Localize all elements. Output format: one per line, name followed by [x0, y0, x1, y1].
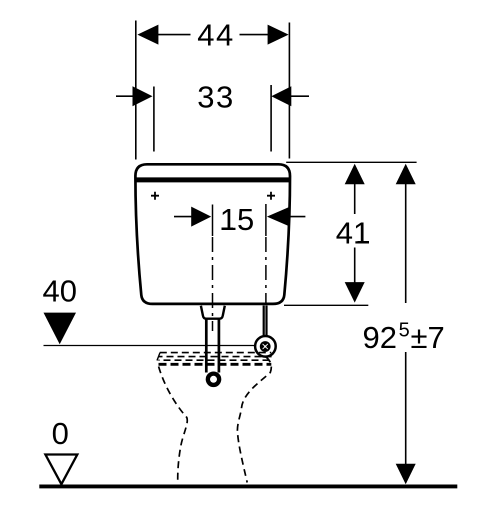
arrowhead 44 left	[137, 25, 158, 45]
svg-text:15: 15	[220, 202, 254, 237]
toilet bowl left profile dashed	[159, 367, 188, 484]
arrowhead 41 down	[345, 282, 365, 303]
cistern body outline	[135, 164, 290, 304]
dimension line 41	[354, 183, 356, 284]
toilet rim dashed row 3	[159, 359, 272, 361]
center line flush pipe	[212, 205, 214, 332]
arrowhead 41 up	[345, 164, 365, 185]
dimension line 44	[158, 34, 269, 36]
svg-text:5: 5	[399, 320, 410, 342]
cistern lid joint band	[137, 177, 290, 182]
floor line	[39, 484, 457, 488]
supply pipe	[264, 306, 267, 341]
flush valve outlet	[201, 306, 225, 319]
svg-text:44: 44	[197, 18, 234, 53]
svg-text:33: 33	[197, 80, 234, 115]
center line supply	[265, 204, 267, 305]
toilet rim dashed row 4 thick	[159, 363, 272, 366]
svg-text:41: 41	[336, 216, 370, 251]
extension line 44 right	[288, 23, 290, 159]
svg-text:0: 0	[52, 416, 69, 451]
svg-text:92: 92	[363, 320, 397, 355]
arrowhead 33 left	[133, 86, 153, 106]
reference line top of cistern	[286, 161, 416, 163]
toilet rim dashed row 1	[160, 352, 271, 354]
dimension line 33 left tail	[116, 95, 133, 97]
datum triangle 40 filled	[44, 313, 77, 345]
datum triangle 0 open	[45, 455, 77, 485]
extension line 33 left	[153, 87, 155, 152]
fixing hole cross left	[151, 192, 159, 200]
arrowhead 92.5 down	[396, 464, 416, 485]
arrowhead 44 right	[268, 25, 289, 45]
toilet rim dashed row 2	[159, 356, 272, 358]
svg-text:40: 40	[43, 274, 77, 309]
dimension line 92.5	[405, 183, 407, 465]
flush pipe walls	[206, 319, 219, 373]
arrowhead 92.5 up	[396, 164, 416, 185]
level line 40	[44, 345, 256, 347]
extension line cistern bottom	[284, 304, 368, 306]
arrowhead 15 left	[191, 207, 211, 227]
dimension line 15 left tail	[174, 216, 192, 218]
dimension line 15 right tail	[288, 216, 305, 218]
fixing hole cross right	[267, 192, 275, 200]
svg-text:±7: ±7	[411, 320, 445, 355]
extension line 33 right	[270, 85, 272, 152]
arrowhead 15 right	[267, 207, 289, 226]
extension line 44 left	[135, 21, 137, 160]
arrowhead 33 right	[271, 86, 291, 106]
angle stop valve	[255, 336, 276, 357]
dimension line 33 right tail	[291, 95, 309, 97]
toilet rim left edge tick	[157, 353, 160, 361]
toilet bowl right profile dashed	[237, 357, 271, 483]
flush pipe end cap	[206, 372, 222, 388]
